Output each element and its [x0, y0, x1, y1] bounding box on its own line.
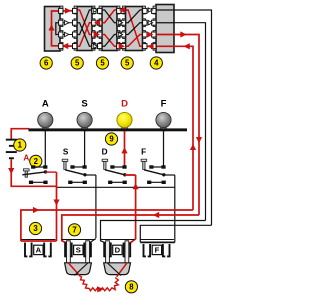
- rotor R2 internal wire L1-R2: [102, 10, 117, 23]
- plug D pins: [106, 241, 129, 266]
- label circle 5 rotor R2: [96, 57, 108, 69]
- rotor R1 internal wire L1-R4 (red in): [126, 10, 143, 46]
- svg-text:5: 5: [75, 59, 80, 68]
- entry wheel internal row3 wire (red out): [156, 34, 174, 36]
- svg-text:A: A: [42, 99, 49, 110]
- label circle 8 plug cable: [125, 281, 137, 293]
- rotor R3 internal wire L4-R2 (red in): [77, 23, 92, 47]
- svg-text:7: 7: [72, 226, 76, 235]
- switch A upper contact bar: [31, 165, 47, 168]
- socket A top plate: [21, 239, 55, 241]
- label circle 1 battery: [14, 139, 26, 151]
- reflector internal wire rows 2-3 (black U link): [56, 23, 59, 35]
- label circle 3 socket A: [29, 222, 41, 234]
- svg-text:F: F: [155, 246, 160, 255]
- battery B1: [6, 139, 17, 160]
- switch F screw: [141, 159, 147, 169]
- battery bottom wire to key A (red): [11, 159, 56, 186]
- wire entry row1 to right fan: [174, 10, 212, 225]
- svg-text:S: S: [81, 99, 87, 110]
- battery top wire to lamp panel: [11, 129, 29, 140]
- svg-text:5: 5: [100, 59, 105, 68]
- label circle 5 rotor R3: [71, 57, 83, 69]
- switch A screw (pressed): [24, 169, 30, 177]
- switch A lower contact bar: [29, 181, 48, 184]
- rotor R2 internal wire L4-R3: [102, 35, 117, 47]
- arrow down to socket A: [53, 200, 59, 206]
- socket S body: [65, 243, 91, 258]
- wire socket A to entry row4 (red W2): [21, 210, 193, 241]
- wire entry row3 to socket S (red W3): [62, 215, 199, 243]
- rotor R2 internal wire L3-R4 (red out): [102, 35, 117, 47]
- switch S upper contact bar: [70, 165, 86, 168]
- wire entry row3 out to lamp side (red): [174, 35, 199, 216]
- rotor R3 internal wire L2-R4: [77, 23, 92, 47]
- svg-text:4: 4: [154, 59, 159, 68]
- svg-text:8: 8: [129, 283, 134, 292]
- lamp F wire down to contact: [163, 131, 165, 166]
- socket F shorting bar (no plug): [140, 241, 175, 243]
- label circle 9 key switch D: [105, 133, 117, 145]
- lamp A: [38, 112, 53, 130]
- wire entry row2 to right fan: [174, 23, 206, 221]
- gap D connectors R1-entry wheel: [143, 8, 157, 50]
- switch F lever: [144, 170, 166, 177]
- switch D screw: [102, 159, 108, 169]
- rotor R3 body (left rotor): [77, 7, 92, 51]
- jog into socket S right pin: [89, 239, 96, 244]
- arrow right on plug cable: [97, 286, 103, 292]
- arrow down on battery wire: [8, 168, 14, 174]
- entry wheel internal row4 wire (red in): [156, 45, 174, 47]
- svg-text:3: 3: [33, 224, 38, 233]
- plug D body: [104, 263, 131, 277]
- label circle 5 rotor R1: [121, 57, 133, 69]
- arrow left on W3: [153, 212, 159, 218]
- arrow right on W2: [33, 207, 39, 213]
- wire socket D up to switch D (red): [129, 175, 136, 244]
- label circle 7 socket S: [68, 224, 80, 236]
- svg-text:S: S: [76, 246, 81, 255]
- svg-text:F: F: [161, 99, 167, 110]
- lamp S: [77, 112, 92, 130]
- svg-text:S: S: [63, 148, 69, 157]
- svg-text:2: 2: [34, 157, 39, 166]
- wire switch S down to socket S: [95, 175, 97, 238]
- plug cable S to D (red): [81, 276, 119, 291]
- rotor R3 internal wire L3-R1: [77, 10, 92, 35]
- switch D lower contact bar: [108, 181, 127, 184]
- lamp D lit: [117, 112, 132, 130]
- label circle 4 entry wheel: [150, 57, 162, 69]
- switch S lever to plug wire: [85, 174, 96, 176]
- plug S pins: [67, 241, 90, 266]
- rotor R2 body (middle rotor): [102, 7, 117, 51]
- label circle 6 reflector: [40, 57, 52, 69]
- contact tabs on box edges: [60, 6, 156, 50]
- socket F top plate: [140, 239, 174, 241]
- switch A lever to plug wire (red): [46, 171, 57, 173]
- reflector internal red path row4 to row1: [48, 11, 58, 46]
- svg-text:6: 6: [44, 59, 49, 68]
- wire entry row1 to socket F: [140, 225, 211, 242]
- arrow up to switch D: [133, 183, 139, 189]
- arrow up to lamp D: [121, 147, 127, 153]
- lamp D wire down to contact (red): [124, 131, 126, 166]
- wire switch F down to socket F: [174, 175, 176, 242]
- entry wheel internal row2 wire: [156, 22, 174, 24]
- socket A shorting bar (red, no plug): [21, 240, 57, 242]
- rotor R3 internal wire L1-R3 (red out): [77, 10, 92, 35]
- rotor R1 internal wire L4-R3 (red out): [126, 35, 143, 47]
- svg-text:5: 5: [125, 59, 130, 68]
- entry wheel U4 body: [156, 5, 174, 53]
- socket D body: [104, 243, 130, 258]
- svg-text:9: 9: [109, 135, 114, 144]
- arrow right on row3: [180, 31, 186, 37]
- rotor R2 internal wire L2-R1 (red in): [102, 10, 117, 23]
- switch F lower contact bar: [147, 181, 166, 184]
- svg-text:1: 1: [18, 141, 23, 150]
- svg-text:D: D: [121, 99, 128, 110]
- switch F upper contact bar: [149, 165, 165, 168]
- wire entry row2 to socket D: [101, 221, 206, 244]
- entry wheel internal row1 wire: [156, 9, 174, 11]
- rotor R1 internal wire L3-R2: [126, 23, 143, 35]
- lamp S wire down to contact: [84, 131, 86, 166]
- gap C connectors R2-R1: [117, 7, 126, 50]
- svg-text:A: A: [23, 154, 29, 163]
- socket A body: [25, 243, 51, 258]
- socket F body: [144, 244, 170, 257]
- rotor R1 internal wire L2-R1: [126, 10, 143, 23]
- lamp A wire down to contact: [44, 131, 46, 166]
- wire entry row4 in from key side (red): [174, 46, 193, 210]
- rotor R1 body (right rotor): [126, 7, 143, 51]
- wire switch A down to socket A (red): [56, 172, 58, 241]
- label circle 2 key switch A: [30, 155, 42, 167]
- switch S screw: [62, 159, 68, 169]
- switch F lever to plug wire: [164, 174, 175, 176]
- arrow up on W2 vertical: [190, 144, 196, 150]
- svg-text:A: A: [36, 246, 42, 255]
- arrow left on row4: [183, 43, 189, 49]
- svg-text:F: F: [141, 148, 146, 157]
- common key bus wire: [57, 186, 175, 188]
- plug S body: [65, 263, 92, 277]
- reflector U6 body: [45, 7, 61, 52]
- switch S lower contact bar: [68, 181, 87, 184]
- lamp panel bus bar: [29, 128, 188, 131]
- lamp F: [156, 112, 171, 130]
- arrow down on W3 vertical: [196, 137, 202, 143]
- switch A lever (pressed): [22, 170, 47, 175]
- socket D top plate: [100, 239, 134, 241]
- gap B connectors R3-R2: [92, 8, 102, 49]
- switch D lever: [105, 170, 127, 177]
- switch D lever to plug wire (red): [125, 174, 136, 176]
- gap A connectors reflector-R3: [59, 8, 77, 50]
- switch S lever: [65, 170, 87, 177]
- socket S top plate: [61, 239, 95, 241]
- svg-text:D: D: [102, 148, 108, 157]
- switch D upper contact bar: [110, 165, 126, 168]
- svg-text:D: D: [115, 246, 121, 255]
